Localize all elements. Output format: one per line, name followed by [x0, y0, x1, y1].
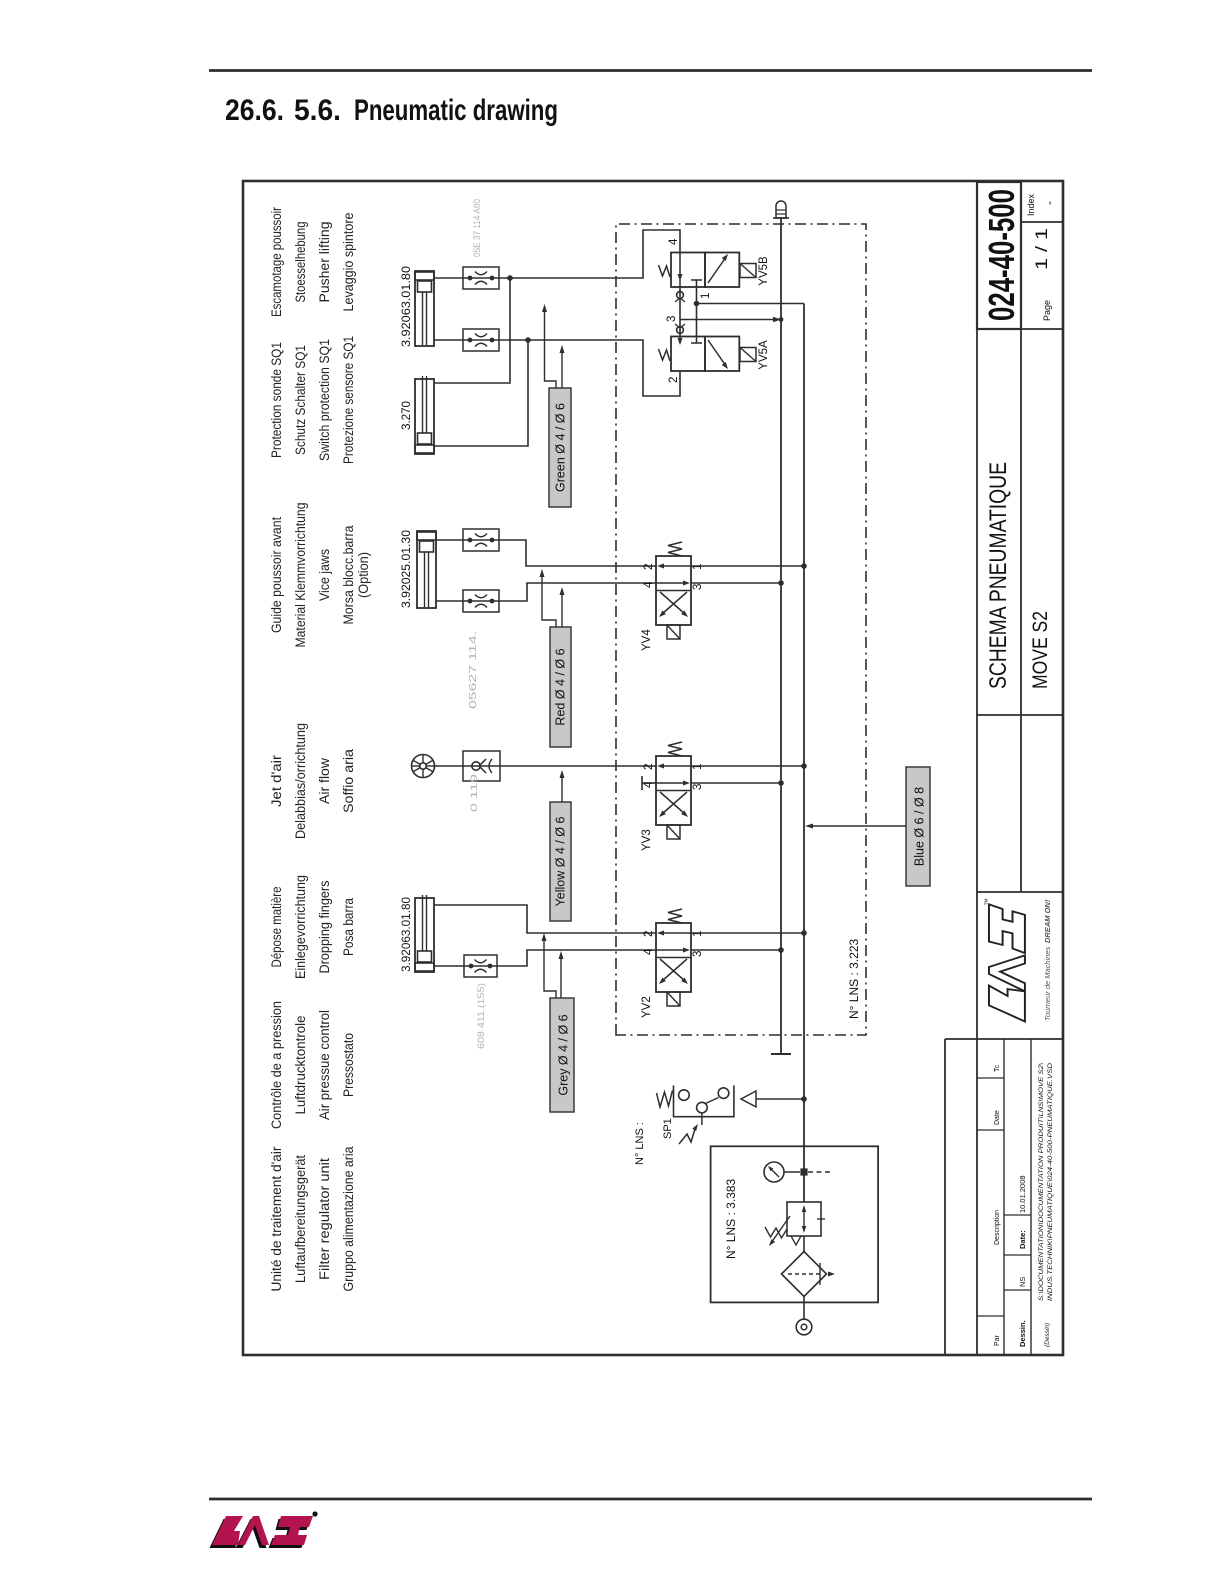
- svg-text:3.270: 3.270: [399, 401, 413, 430]
- wire: YV5 port 3 to exhaust rail: [680, 317, 783, 323]
- svg-text:Unité de traitement d'air: Unité de traitement d'air: [269, 1146, 284, 1292]
- exhaust rail with end bar: [771, 218, 791, 1054]
- svg-text:Date:: Date:: [1018, 1230, 1027, 1249]
- svg-text:Switch protection SQ1: Switch protection SQ1: [317, 339, 332, 461]
- svg-text:Grey Ø 4 / Ø 6: Grey Ø 4 / Ø 6: [557, 1014, 571, 1095]
- wire: air nozzle to YV3 port 2: [435, 765, 657, 767]
- flow line through YV5B with check valve: [675, 253, 685, 320]
- pressure regulator: [765, 1202, 825, 1246]
- revision table texts: [994, 1063, 1054, 1347]
- wire: vice jaws cylinder to YV4 port 4: [436, 583, 656, 601]
- wire: YV3 port 3 to exhaust rail: [691, 780, 784, 786]
- svg-text:Protezione sensore SQ1: Protezione sensore SQ1: [341, 336, 356, 464]
- node label column: dropping fingers: [269, 875, 356, 979]
- part number 05E 37 114 A80: [472, 199, 483, 257]
- svg-text:Page: Page: [1042, 300, 1052, 321]
- svg-text:YV2: YV2: [641, 996, 653, 1018]
- title block grid: [945, 181, 1063, 1355]
- wire: YV3 port 1 to pressure rail: [691, 763, 807, 769]
- valve YV5B (3/2 solenoid valve, pusher lifting): [659, 253, 771, 288]
- flow control valve (vice jaws, port 4 line): [463, 590, 499, 612]
- svg-text:Escamotage poussoir: Escamotage poussoir: [269, 207, 284, 317]
- svg-text:Red Ø 4 / Ø 6: Red Ø 4 / Ø 6: [554, 648, 568, 725]
- port 2 label of YV5A: [668, 377, 680, 383]
- wire: pusher cylinder port to YV5B port 4: [434, 230, 680, 278]
- node label column: vice jaws: [269, 503, 371, 648]
- tube label Green Ø4/Ø6 with arrows: [542, 304, 571, 507]
- svg-text:(Option): (Option): [356, 552, 371, 598]
- wire: tee to sensor-protection cylinder left port: [434, 340, 528, 446]
- svg-text:2: 2: [643, 931, 655, 937]
- svg-text:2: 2: [643, 764, 655, 770]
- svg-text:N° LNS : 3.223: N° LNS : 3.223: [847, 939, 861, 1020]
- svg-text:024-40-500: 024-40-500: [981, 189, 1022, 321]
- wire: pusher cylinder port to YV5A port 2: [434, 340, 680, 396]
- node label column: switch protection SQ1: [269, 336, 356, 464]
- svg-text:3: 3: [692, 584, 704, 590]
- svg-text:Einlegevorrichtung: Einlegevorrichtung: [293, 875, 308, 979]
- part number 05627 114: [468, 631, 479, 709]
- flow control valve (dropping fingers): [464, 955, 497, 977]
- SP1 reference labels: [634, 1118, 674, 1165]
- section title: [225, 94, 558, 127]
- svg-text:Contrôle de a pression: Contrôle de a pression: [269, 1001, 284, 1129]
- svg-text:Tourneur de Machines: Tourneur de Machines: [1043, 946, 1052, 1021]
- svg-text:3.92063.01.80: 3.92063.01.80: [399, 897, 413, 972]
- svg-text:05627 114.: 05627 114.: [468, 631, 479, 709]
- svg-text:10.01.2008: 10.01.2008: [1018, 1175, 1027, 1213]
- svg-text:Par: Par: [994, 1334, 1001, 1346]
- svg-text:YV5B: YV5B: [758, 256, 770, 286]
- node label column: air blow: [269, 723, 356, 839]
- svg-text:26.6.: 26.6.: [225, 94, 284, 127]
- svg-text:INDUS.TECHNIK\PNEUMATIQUE\024-: INDUS.TECHNIK\PNEUMATIQUE\024-40-500-PNE…: [1047, 1063, 1054, 1301]
- svg-text:3: 3: [692, 951, 704, 957]
- port 4 label of YV5B: [668, 238, 680, 245]
- svg-text:Tc: Tc: [994, 1065, 1001, 1073]
- pressure supply rail: [803, 304, 805, 1203]
- svg-text:Green Ø 4 / Ø 6: Green Ø 4 / Ø 6: [554, 403, 568, 492]
- tube label Blue Ø6/Ø8 with arrow: [805, 767, 930, 886]
- svg-text:2: 2: [643, 564, 655, 570]
- svg-text:YV5A: YV5A: [758, 340, 770, 370]
- svg-text:Pusher lifting: Pusher lifting: [317, 222, 332, 303]
- svg-text:-: -: [1042, 201, 1056, 205]
- junction: [507, 275, 513, 281]
- svg-text:Protection sonde SQ1: Protection sonde SQ1: [269, 342, 284, 458]
- svg-text:608 411 (155): 608 411 (155): [476, 983, 487, 1049]
- svg-text:NS: NS: [1018, 1277, 1027, 1287]
- svg-text:SP1: SP1: [662, 1118, 674, 1139]
- junction: port 1 to pressure riser: [694, 301, 700, 307]
- svg-text:4: 4: [643, 581, 655, 588]
- svg-text:Air flow: Air flow: [317, 758, 332, 804]
- pressure switch SP1: [657, 1085, 734, 1144]
- svg-text:1: 1: [700, 293, 712, 299]
- wire: YV4 port 3 to exhaust rail: [691, 580, 784, 586]
- flow line into YV5A with check valve: [675, 320, 685, 346]
- svg-text:Pneumatic drawing: Pneumatic drawing: [354, 94, 558, 127]
- svg-text:2: 2: [668, 377, 680, 383]
- flow control valve (vice jaws, port 2 line): [463, 529, 499, 551]
- svg-text:4: 4: [643, 781, 655, 788]
- svg-text:Guide poussoir avant: Guide poussoir avant: [269, 517, 284, 633]
- svg-text:1 / 1: 1 / 1: [1032, 228, 1051, 270]
- pressure gauge: [764, 1162, 833, 1182]
- subtitle MOVE S2: [1029, 611, 1052, 689]
- drawing sheet frame: [243, 181, 1063, 1355]
- svg-text:3: 3: [666, 316, 678, 322]
- node label column: filter regulator unit: [269, 1146, 356, 1292]
- air treatment unit N° LNS : 3.383: [711, 1146, 879, 1302]
- wire: vice jaws cylinder to YV4 port 2: [436, 540, 656, 566]
- air blow nozzle: [412, 755, 435, 778]
- page bottom rule: [209, 1498, 1092, 1501]
- plugged port 4 stub of YV3: [642, 776, 656, 790]
- svg-text:Jet d'air: Jet d'air: [269, 754, 284, 807]
- svg-text:Material Klemmvorrichtung: Material Klemmvorrichtung: [293, 503, 308, 648]
- svg-text:Blue Ø 6 / Ø 8: Blue Ø 6 / Ø 8: [913, 787, 927, 866]
- valve YV4 (5/2 solenoid valve, vice jaws): [641, 542, 704, 651]
- drawing number 024-40-500: [977, 182, 1022, 329]
- flow control valve (pusher lifting, port 2 line): [463, 329, 499, 351]
- check valve unit (air blow): [463, 751, 500, 781]
- cylinder 3.92063.01.80 (dropping fingers): [399, 895, 434, 972]
- flow control valve (pusher lifting, port 4 line): [463, 267, 499, 289]
- svg-text:Vice jaws: Vice jaws: [317, 549, 332, 601]
- silencer on exhaust rail: [773, 201, 789, 218]
- svg-text:Date: Date: [994, 1110, 1001, 1125]
- junction: [525, 337, 531, 343]
- svg-text:MOVE S2: MOVE S2: [1029, 611, 1052, 689]
- svg-text:Dépose matière: Dépose matière: [269, 887, 284, 968]
- svg-text:Dessin.: Dessin.: [1018, 1320, 1027, 1347]
- svg-text:YV4: YV4: [641, 629, 653, 651]
- filter with water separator: [782, 1236, 836, 1297]
- tube label Yellow Ø4/Ø6 with arrow: [550, 770, 571, 921]
- valve YV5A (3/2 solenoid valve, pusher lifting): [659, 337, 771, 372]
- part number 608 411 155: [476, 983, 487, 1049]
- wire: YV2 port 3 to exhaust rail: [691, 947, 784, 953]
- tube label Red Ø4/Ø6 with arrows: [540, 569, 572, 747]
- svg-text:Delabbias/orrichtung: Delabbias/orrichtung: [293, 723, 308, 839]
- svg-text:Morsa blocc.barra: Morsa blocc.barra: [341, 525, 356, 624]
- svg-text:Stoesselhebung: Stoesselhebung: [293, 222, 308, 303]
- wire: pressure riser to YV5 port 1: [697, 303, 805, 305]
- svg-text:4: 4: [668, 238, 680, 245]
- pilot line SP1 to pressure rail: [741, 1091, 807, 1107]
- svg-text:Luftdrucktontrole: Luftdrucktontrole: [293, 1016, 308, 1115]
- port 1 label: [700, 293, 712, 299]
- cylinder 3.92025.01.30 (vice jaws): [399, 530, 436, 608]
- svg-text:Index: Index: [1026, 193, 1036, 216]
- svg-text:Schutz Schalter SQ1: Schutz Schalter SQ1: [293, 345, 308, 455]
- svg-text:0 119: 0 119: [469, 774, 480, 812]
- valve YV3 (5/2 solenoid valve, air blow): [641, 742, 704, 851]
- svg-text:3: 3: [692, 784, 704, 790]
- part number 0 119: [469, 774, 480, 812]
- svg-text:Luftaufbereitungsgerät: Luftaufbereitungsgerät: [293, 1155, 308, 1283]
- svg-text:N° LNS : 3.383: N° LNS : 3.383: [724, 1179, 738, 1260]
- svg-text:Dropping fingers: Dropping fingers: [317, 880, 332, 973]
- svg-text:Yellow Ø 4 / Ø 6: Yellow Ø 4 / Ø 6: [554, 817, 568, 907]
- wire: dropping cylinder to YV2 port 2: [434, 905, 656, 933]
- page cell Page 1/1: [1032, 228, 1052, 321]
- svg-text:N° LNS :: N° LNS :: [634, 1122, 646, 1165]
- port 1 link line between YV5A and YV5B: [691, 280, 702, 343]
- svg-text:Levaggio spintore: Levaggio spintore: [341, 213, 356, 312]
- svg-text:Filter regulator unit: Filter regulator unit: [317, 1158, 332, 1280]
- svg-text:S:\DOCUMENTATION\DOCUMENTATION: S:\DOCUMENTATION\DOCUMENTATION PRODUIT\L…: [1038, 1063, 1045, 1301]
- node label column: air pressure control: [269, 1001, 356, 1129]
- svg-text:™: ™: [983, 898, 992, 906]
- node label column: pusher lifting: [269, 207, 356, 317]
- svg-text:Posa barra: Posa barra: [341, 898, 356, 956]
- title SCHEMA PNEUMATIQUE: [985, 462, 1012, 689]
- pneumatic schematic sheet (rotated 90° CCW landscape A4): [243, 181, 1063, 1355]
- svg-text:05E 37 114 A80: 05E 37 114 A80: [472, 199, 483, 257]
- port 3 label: [666, 316, 678, 322]
- cylinder 3.92063.01.80 (pusher lifting): [399, 266, 434, 347]
- svg-text:DREAM ON!: DREAM ON!: [1043, 899, 1052, 943]
- air inlet port: [796, 1297, 812, 1335]
- wire: dropping cylinder to YV2 port 4: [434, 950, 656, 966]
- wire: YV2 port 1 to pressure rail: [691, 930, 807, 936]
- LNS company logo (page footer): [210, 1511, 318, 1548]
- svg-text:4: 4: [643, 948, 655, 955]
- index cell: [1026, 193, 1056, 216]
- svg-text:Pressostato: Pressostato: [341, 1033, 356, 1097]
- svg-text:YV3: YV3: [641, 829, 653, 851]
- cylinder 3.270 (sensor protection SQ1): [399, 376, 434, 454]
- svg-text:Air pressue control: Air pressue control: [317, 1010, 332, 1120]
- svg-text:Description: Description: [994, 1210, 1001, 1245]
- value label N° LNS : 3.223: [847, 939, 861, 1020]
- svg-text:SCHEMA PNEUMATIQUE: SCHEMA PNEUMATIQUE: [985, 462, 1012, 689]
- wire: YV4 port 1 to pressure rail: [691, 563, 807, 569]
- valve YV2 (5/2 solenoid valve, dropping fingers): [641, 909, 704, 1018]
- LNS logo (title block): [983, 898, 1052, 1022]
- svg-text:3.92025.01.30: 3.92025.01.30: [399, 530, 413, 608]
- dash-dot enclosure frame: [616, 224, 866, 1035]
- svg-text:Soffio aria: Soffio aria: [341, 748, 356, 813]
- page top rule: [209, 69, 1092, 72]
- svg-text:3.92063.01.80: 3.92063.01.80: [399, 266, 413, 347]
- wire: tee to sensor-protection cylinder right port: [434, 278, 510, 383]
- svg-text:5.6.: 5.6.: [294, 94, 341, 127]
- tube label Grey Ø4/Ø6 with arrows: [542, 933, 575, 1112]
- svg-text:(Dessin): (Dessin): [1044, 1323, 1051, 1347]
- svg-text:Gruppo alimentazione aria: Gruppo alimentazione aria: [341, 1146, 356, 1291]
